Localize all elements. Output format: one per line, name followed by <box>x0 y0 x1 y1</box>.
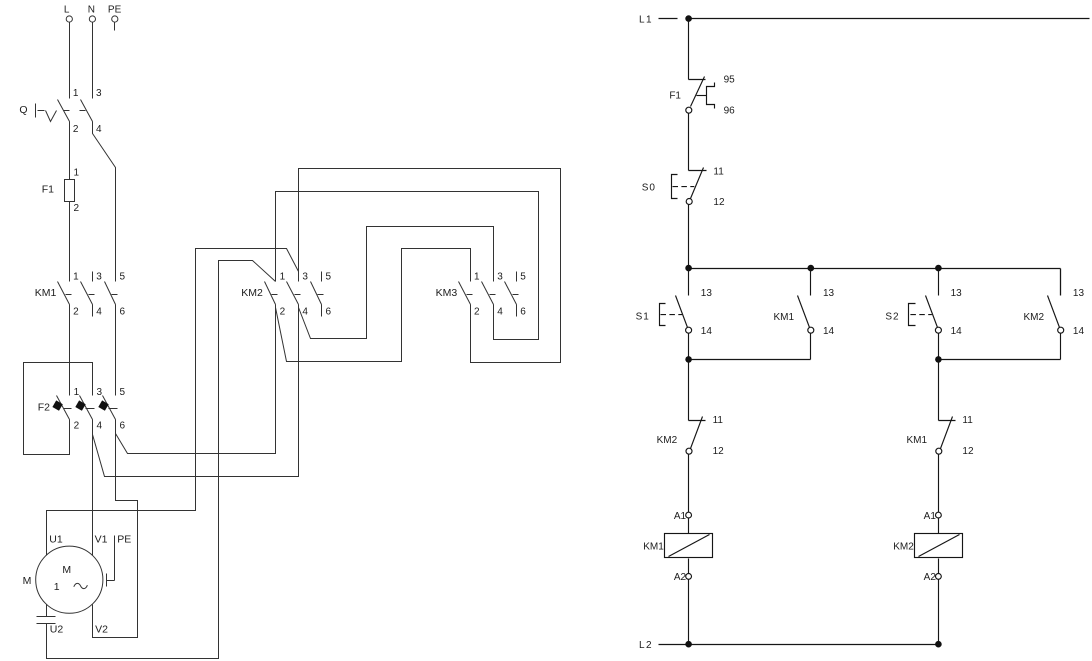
svg-text:A2: A2 <box>674 572 687 583</box>
svg-text:11: 11 <box>962 415 973 426</box>
svg-text:KM1: KM1 <box>773 312 794 323</box>
node bus-S1 <box>685 265 692 272</box>
svg-text:13: 13 <box>823 288 835 299</box>
node S1 join <box>685 356 692 363</box>
node bus-S2 <box>935 265 942 272</box>
svg-text:6: 6 <box>520 307 526 318</box>
svg-text:2: 2 <box>73 307 79 318</box>
wire F2 pole6 to KM2 pole2 <box>116 317 276 454</box>
wire KM1 pole2 to F2 pole1 <box>69 305 71 396</box>
contactor KM3 <box>436 272 527 318</box>
svg-text:KM2: KM2 <box>241 287 263 299</box>
svg-text:4: 4 <box>302 307 308 318</box>
svg-text:KM2: KM2 <box>657 435 678 446</box>
wire KM2 pole4 to KM3 pole3 <box>299 227 494 339</box>
svg-text:Q: Q <box>19 104 27 116</box>
svg-text:1: 1 <box>54 581 60 593</box>
svg-text:S0: S0 <box>642 183 656 194</box>
node L2-KM1 <box>685 641 692 648</box>
svg-text:6: 6 <box>326 307 332 318</box>
svg-text:A1: A1 <box>924 511 937 522</box>
node L2-KM2 <box>935 641 942 648</box>
svg-text:4: 4 <box>497 307 503 318</box>
svg-text:2: 2 <box>280 307 286 318</box>
wire motor U2 to capacitor <box>46 605 48 617</box>
wire F2 pole2 loop to pole3 <box>24 363 93 455</box>
svg-text:14: 14 <box>951 326 963 337</box>
svg-text:13: 13 <box>951 288 963 299</box>
contactor KM1 <box>35 272 126 318</box>
wire S1 to KM2 NC <box>688 360 690 421</box>
wire Q to KM1 pole5 <box>93 122 116 282</box>
svg-text:PE: PE <box>117 533 131 545</box>
wire KM2 pole3 to motor U1 <box>47 249 299 556</box>
svg-text:14: 14 <box>1073 326 1085 337</box>
rail L1 <box>639 15 1090 26</box>
svg-text:3: 3 <box>497 272 503 283</box>
svg-text:N: N <box>88 4 95 15</box>
svg-text:F1: F1 <box>42 184 54 196</box>
svg-text:M: M <box>23 575 32 587</box>
node L1 junction <box>685 15 692 22</box>
start button S2 <box>885 269 962 360</box>
auxiliary contact KM1 13-14 <box>773 269 834 360</box>
svg-text:KM2: KM2 <box>1023 312 1044 323</box>
auxiliary contact KM2 13-14 <box>1023 269 1084 360</box>
svg-text:2: 2 <box>73 124 79 135</box>
wire S1-KM1 join <box>689 359 811 361</box>
PE connection at motor <box>107 536 115 587</box>
svg-text:3: 3 <box>96 272 102 283</box>
wire F1 to KM1 pole1 <box>69 202 71 282</box>
svg-text:12: 12 <box>713 197 725 208</box>
bus wire <box>689 269 1061 296</box>
svg-text:1: 1 <box>73 88 79 99</box>
svg-text:2: 2 <box>474 307 480 318</box>
svg-text:3: 3 <box>96 88 102 99</box>
svg-text:11: 11 <box>713 167 724 178</box>
svg-text:4: 4 <box>97 420 103 431</box>
svg-text:L: L <box>64 4 70 15</box>
svg-text:S1: S1 <box>636 311 650 322</box>
svg-text:1: 1 <box>474 272 480 283</box>
svg-text:1: 1 <box>74 168 80 179</box>
svg-text:L1: L1 <box>639 15 653 26</box>
wire KM1 pole6 to F2 pole5 <box>115 305 117 396</box>
svg-text:95: 95 <box>724 75 736 86</box>
wire KM2 pole3 top to KM3 pole2 <box>299 169 561 363</box>
svg-text:13: 13 <box>701 288 713 299</box>
wire S2 to KM1 NC <box>938 360 940 421</box>
svg-text:14: 14 <box>823 326 835 337</box>
svg-text:2: 2 <box>74 203 80 214</box>
wire F2 pole4 to KM2 pole4 <box>93 317 299 477</box>
svg-text:KM1: KM1 <box>906 435 927 446</box>
svg-text:PE: PE <box>108 4 122 15</box>
svg-text:5: 5 <box>120 387 126 398</box>
wire KM2 pole1 top to KM3 pole4 <box>276 192 539 340</box>
svg-text:6: 6 <box>120 420 126 431</box>
contactor KM2 <box>241 272 331 318</box>
start button S1 <box>636 269 713 360</box>
wire L to Q <box>69 23 71 99</box>
svg-text:L2: L2 <box>639 640 653 651</box>
wire KM2 pole2 to KM3 pole1 <box>276 249 471 362</box>
svg-text:KM1: KM1 <box>643 542 664 553</box>
svg-text:A1: A1 <box>674 511 687 522</box>
terminal PE <box>108 4 122 30</box>
svg-text:5: 5 <box>326 272 332 283</box>
svg-text:12: 12 <box>713 446 725 457</box>
svg-text:4: 4 <box>96 307 102 318</box>
wire Q to F1 <box>69 122 71 180</box>
overload relay F2 <box>38 387 126 433</box>
svg-text:12: 12 <box>962 446 974 457</box>
wire S2-KM2 join <box>939 359 1061 361</box>
svg-text:F2: F2 <box>38 401 50 413</box>
motor M1 <box>23 533 132 635</box>
interlock contact KM2 11-12 <box>657 415 725 457</box>
svg-text:S2: S2 <box>885 311 899 322</box>
wire coil KM2 to L2 <box>938 580 940 645</box>
wire L1 to F1 <box>688 19 690 80</box>
svg-text:96: 96 <box>724 106 736 117</box>
disconnector Q <box>19 88 102 135</box>
coil KM2 <box>893 511 962 583</box>
wire KM1 NC to coil KM2 <box>938 455 940 513</box>
coil KM1 <box>643 511 712 583</box>
thermal contact F1 95-96 <box>669 75 735 117</box>
svg-text:1: 1 <box>73 272 79 283</box>
interlock contact KM1 11-12 <box>906 415 974 457</box>
terminal L <box>64 4 73 22</box>
fuse F1 <box>42 168 80 215</box>
stop button S0 <box>642 167 725 209</box>
node S2 join <box>935 356 942 363</box>
wire F1 to S0 <box>688 114 690 171</box>
svg-text:1: 1 <box>280 272 286 283</box>
svg-text:6: 6 <box>120 307 126 318</box>
node bus-KM1aux <box>808 265 815 272</box>
svg-text:U2: U2 <box>50 623 64 635</box>
svg-text:11: 11 <box>713 415 724 426</box>
svg-text:KM1: KM1 <box>35 287 57 299</box>
capacitor <box>37 617 56 624</box>
svg-text:U1: U1 <box>49 533 63 545</box>
svg-text:A2: A2 <box>924 572 937 583</box>
svg-text:KM2: KM2 <box>893 542 914 553</box>
wire F2 pole6 to motor V2 <box>93 433 138 638</box>
wire S0 to bus <box>688 205 690 269</box>
svg-text:F1: F1 <box>669 91 681 102</box>
wire KM2 pole1 to capacitor U2 <box>47 261 276 659</box>
svg-text:2: 2 <box>74 420 80 431</box>
svg-text:3: 3 <box>302 272 308 283</box>
terminal N <box>88 4 96 22</box>
svg-text:3: 3 <box>97 387 103 398</box>
svg-text:5: 5 <box>120 272 126 283</box>
svg-text:5: 5 <box>520 272 526 283</box>
svg-text:4: 4 <box>96 124 102 135</box>
svg-text:14: 14 <box>701 326 713 337</box>
wire coil KM1 to L2 <box>688 580 690 645</box>
rail L2 <box>639 640 939 651</box>
wire N to Q <box>92 23 94 99</box>
svg-text:M: M <box>62 564 71 576</box>
svg-text:V2: V2 <box>95 623 108 635</box>
wire F2 pole4 to motor V1 <box>92 420 94 556</box>
svg-text:13: 13 <box>1073 288 1085 299</box>
svg-text:KM3: KM3 <box>436 287 458 299</box>
wire KM2 NC to coil KM1 <box>688 455 690 513</box>
svg-text:V1: V1 <box>95 533 108 545</box>
svg-text:1: 1 <box>74 387 80 398</box>
